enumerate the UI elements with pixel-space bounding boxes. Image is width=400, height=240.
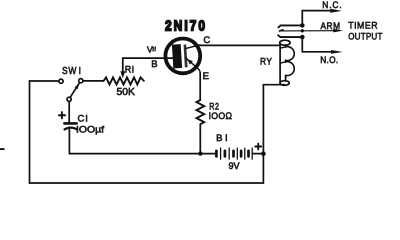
capacitor C1 top plate (64, 122, 76, 125)
wire emitter to R2 (199, 73, 201, 101)
relay coil loop lower hook (280, 62, 286, 63)
wire coil bottom to right rail (263, 85, 284, 183)
NO fixed contact line (278, 35, 302, 37)
transistor collector lead inside (186, 45, 200, 49)
wire R2 to bottom node (199, 124, 201, 153)
svg-text:RY: RY (260, 56, 273, 67)
C1 plus sign (59, 112, 65, 118)
NO arrowhead (331, 50, 343, 54)
svg-text:I: I (85, 114, 88, 125)
svg-text:C: C (203, 35, 210, 46)
wire negative rail to battery (69, 153, 215, 155)
resistor R1 zigzag (104, 77, 144, 84)
transistor Q1 base bar (172, 44, 188, 69)
relay armature blade (279, 30, 334, 32)
svg-text:B: B (216, 133, 222, 144)
transistor emitter arrow (187, 59, 193, 65)
ARM arrowhead (333, 29, 343, 33)
capacitor C1 bottom curved plate (65, 128, 77, 130)
battery plus sign (255, 144, 261, 150)
wire switch lower contact to C1 (68, 102, 70, 122)
wire switch feed (30, 80, 59, 82)
battery B1 cells (216, 148, 252, 159)
relay coil loop lower (286, 62, 295, 76)
R1 wiper arrowhead (120, 71, 125, 78)
label SW1 (62, 65, 81, 76)
label 2N170 (165, 17, 207, 34)
left edge dash (0, 148, 4, 150)
svg-text:V: V (147, 45, 153, 55)
wire base (123, 57, 173, 59)
label 100ohm (209, 110, 233, 120)
armature blade tip hook (279, 30, 283, 31)
svg-text:I: I (79, 65, 81, 76)
junction node battery+/right rail (261, 151, 266, 156)
NO junction dot (300, 35, 305, 40)
NC arrowhead (330, 9, 342, 13)
svg-text:E: E (203, 71, 209, 82)
svg-text:9V: 9V (229, 161, 241, 172)
wire collector to relay coil (200, 44, 280, 46)
switch SW1 (59, 79, 83, 102)
svg-text:C: C (78, 114, 85, 125)
svg-text:IOOΩ: IOOΩ (209, 110, 233, 120)
relay NC terminal wire (302, 11, 332, 26)
resistor R2 zigzag (197, 100, 205, 124)
transistor emitter lead inside (186, 58, 201, 74)
relay RY coil core (280, 40, 290, 45)
svg-text:50K: 50K (117, 87, 136, 98)
wire switch to R1 (83, 80, 104, 82)
R1 wiper arm wire (122, 58, 124, 72)
svg-text:TIMER: TIMER (348, 20, 378, 30)
svg-text:N.O.: N.O. (320, 55, 338, 66)
svg-text:IOOµf: IOOµf (76, 125, 104, 136)
wire bottom rail (30, 182, 264, 184)
label N.O. (320, 55, 338, 66)
svg-text:I: I (225, 133, 228, 144)
label R2 (209, 100, 219, 111)
relay coil loop upper hook (280, 47, 286, 48)
wire left rail vertical (29, 81, 31, 183)
relay coil loop upper (286, 47, 295, 61)
svg-text:OUTPUT: OUTPUT (348, 31, 383, 42)
svg-text:I: I (132, 64, 135, 74)
relay coil bottom cap (280, 81, 289, 86)
wire C1 to bottom node (68, 128, 70, 153)
wire battery positive lead (252, 153, 263, 155)
label OUTPUT (348, 31, 383, 42)
svg-text:2NI70: 2NI70 (165, 17, 207, 34)
junction node R2/battery (198, 151, 202, 155)
armature contact dot (301, 29, 304, 32)
svg-text:B: B (151, 59, 157, 70)
svg-text:ARM: ARM (321, 20, 341, 31)
label ARM (321, 20, 341, 31)
label N.C. (322, 0, 342, 10)
transistor Q1 circle (165, 39, 200, 74)
label RY (260, 56, 273, 67)
svg-text:N.C.: N.C. (322, 0, 342, 10)
svg-text:SW: SW (62, 65, 77, 76)
NC junction dot (300, 23, 305, 28)
relay NO terminal wire (302, 37, 332, 52)
label TIMER (348, 20, 378, 30)
NC fixed contact line (278, 25, 302, 27)
